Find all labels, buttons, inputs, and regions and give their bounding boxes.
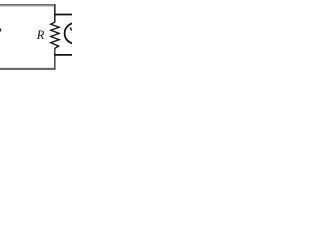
svg-text:R: R — [36, 28, 45, 42]
